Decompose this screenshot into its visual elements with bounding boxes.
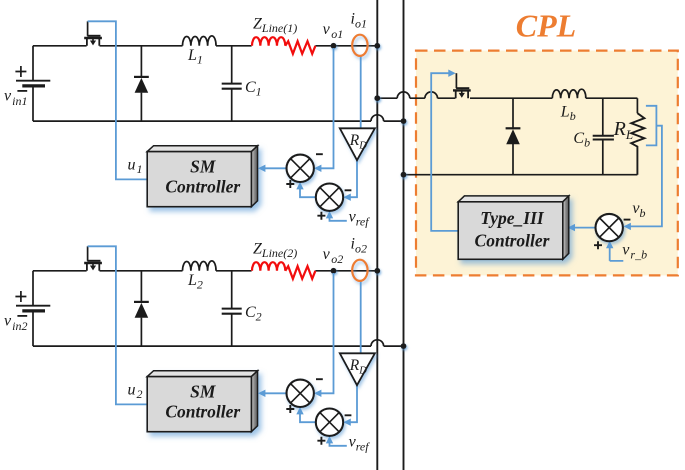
svg-text:C1: C1 <box>245 79 262 99</box>
svg-text:L1: L1 <box>187 47 203 67</box>
svg-text:C2: C2 <box>245 304 262 324</box>
svg-text:u1: u1 <box>128 156 143 176</box>
svg-text:Controller: Controller <box>475 231 550 251</box>
svg-text:u2: u2 <box>128 381 143 401</box>
svg-text:io2: io2 <box>351 236 367 256</box>
svg-text:ZLine(2): ZLine(2) <box>253 240 297 260</box>
svg-text:L2: L2 <box>187 272 203 292</box>
svg-text:ZLine(1): ZLine(1) <box>253 15 297 35</box>
svg-text:Type_III: Type_III <box>480 208 545 228</box>
svg-text:vo2: vo2 <box>323 246 344 266</box>
svg-text:io1: io1 <box>351 11 367 31</box>
svg-text:vo1: vo1 <box>323 21 344 41</box>
svg-text:CPL: CPL <box>516 8 576 44</box>
